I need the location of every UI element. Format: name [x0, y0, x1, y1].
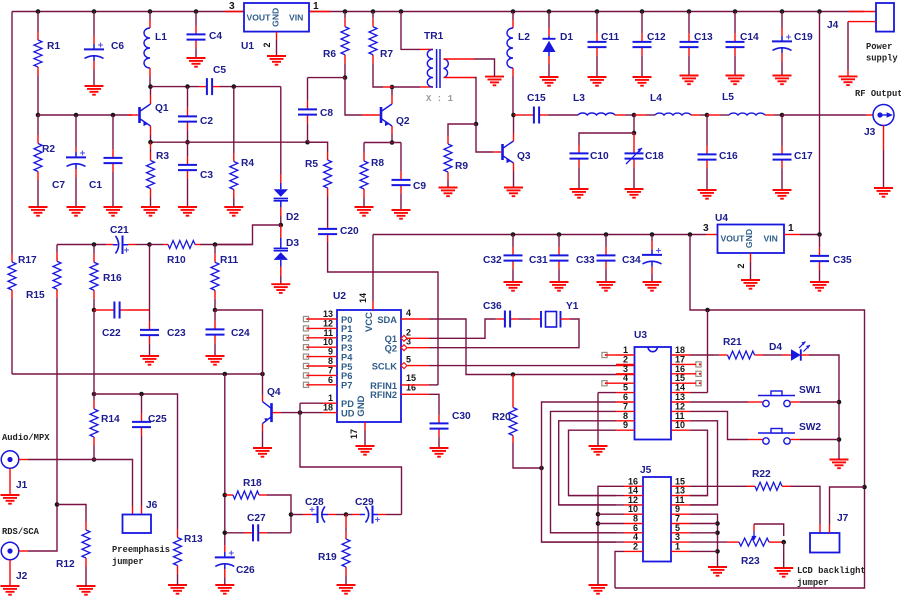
svg-text:3: 3 — [229, 1, 235, 12]
svg-text:C31: C31 — [529, 255, 548, 266]
svg-text:C34: C34 — [622, 255, 641, 266]
svg-text:D4: D4 — [769, 342, 782, 353]
svg-text:supply: supply — [866, 54, 898, 64]
svg-text:RDS/SCA: RDS/SCA — [2, 527, 40, 537]
svg-text:VIN: VIN — [764, 234, 778, 244]
svg-text:C4: C4 — [209, 31, 222, 42]
svg-text:Q1: Q1 — [155, 103, 169, 114]
svg-text:C32: C32 — [483, 255, 502, 266]
svg-text:R19: R19 — [318, 552, 337, 563]
svg-text:D3: D3 — [286, 238, 299, 249]
svg-text:jumper: jumper — [797, 578, 829, 588]
svg-text:1: 1 — [675, 541, 680, 551]
svg-text:C3: C3 — [200, 170, 213, 181]
svg-text:L1: L1 — [155, 32, 167, 43]
svg-text:C27: C27 — [247, 513, 266, 524]
svg-text:R8: R8 — [371, 158, 384, 169]
svg-text:R11: R11 — [220, 255, 238, 266]
svg-text:R3: R3 — [156, 151, 169, 162]
svg-text:Audio/MPX: Audio/MPX — [2, 433, 50, 443]
svg-text:R2: R2 — [42, 144, 55, 155]
svg-text:X : 1: X : 1 — [426, 94, 454, 104]
svg-text:C30: C30 — [452, 411, 471, 422]
svg-text:U1: U1 — [241, 41, 254, 52]
svg-text:C14: C14 — [740, 32, 759, 43]
svg-text:1: 1 — [313, 1, 319, 12]
svg-text:VOUT: VOUT — [247, 13, 272, 23]
svg-text:D2: D2 — [286, 212, 299, 223]
svg-text:R20: R20 — [492, 412, 511, 423]
svg-text:2: 2 — [262, 42, 272, 47]
svg-text:C2: C2 — [200, 116, 213, 127]
svg-text:R14: R14 — [101, 414, 120, 425]
svg-text:C29: C29 — [355, 497, 374, 508]
svg-text:R7: R7 — [380, 49, 393, 60]
svg-text:D1: D1 — [560, 32, 573, 43]
svg-text:2: 2 — [736, 263, 746, 268]
svg-text:R15: R15 — [26, 290, 45, 301]
svg-text:R16: R16 — [103, 273, 122, 284]
svg-text:C5: C5 — [213, 65, 226, 76]
svg-text:C6: C6 — [111, 41, 124, 52]
svg-text:C22: C22 — [102, 328, 121, 339]
svg-text:SDA: SDA — [377, 315, 397, 325]
svg-text:R9: R9 — [455, 161, 468, 172]
svg-text:R13: R13 — [184, 534, 203, 545]
svg-text:L3: L3 — [573, 93, 585, 104]
svg-text:RF Output: RF Output — [855, 89, 901, 99]
svg-text:R12: R12 — [56, 559, 75, 570]
svg-text:Q2: Q2 — [385, 344, 397, 354]
svg-text:SCLK: SCLK — [372, 362, 398, 372]
svg-text:L4: L4 — [650, 93, 662, 104]
svg-text:C11: C11 — [601, 32, 619, 43]
svg-text:C36: C36 — [483, 301, 502, 312]
svg-text:VIN: VIN — [289, 13, 303, 23]
svg-text:3: 3 — [703, 223, 709, 234]
svg-text:Preemphasis: Preemphasis — [112, 545, 170, 555]
svg-text:J7: J7 — [837, 513, 849, 524]
svg-text:2: 2 — [633, 541, 638, 551]
svg-text:RFIN2: RFIN2 — [370, 390, 397, 400]
svg-text:C20: C20 — [340, 226, 359, 237]
svg-text:UD: UD — [341, 408, 355, 418]
svg-text:U4: U4 — [715, 213, 728, 224]
svg-text:GND: GND — [271, 8, 281, 27]
svg-text:Q2: Q2 — [396, 116, 410, 127]
svg-text:GND: GND — [356, 395, 367, 416]
svg-text:14: 14 — [358, 293, 368, 303]
svg-text:Q4: Q4 — [267, 387, 281, 398]
svg-text:TR1: TR1 — [424, 31, 444, 42]
svg-text:J2: J2 — [16, 571, 28, 582]
svg-text:18: 18 — [323, 403, 333, 413]
svg-text:J6: J6 — [146, 500, 158, 511]
svg-text:C12: C12 — [647, 32, 666, 43]
svg-text:J1: J1 — [16, 480, 28, 491]
svg-text:C28: C28 — [305, 497, 324, 508]
svg-text:4: 4 — [406, 308, 411, 318]
svg-text:9: 9 — [623, 420, 628, 430]
svg-text:R5: R5 — [305, 159, 318, 170]
svg-text:VCC: VCC — [364, 312, 375, 332]
svg-text:LCD backlight: LCD backlight — [797, 566, 866, 576]
svg-text:C15: C15 — [527, 93, 546, 104]
svg-text:C13: C13 — [694, 32, 713, 43]
svg-text:16: 16 — [406, 382, 416, 392]
svg-text:SW2: SW2 — [799, 422, 821, 433]
svg-text:J3: J3 — [864, 127, 876, 138]
svg-text:C26: C26 — [236, 565, 255, 576]
svg-text:R21: R21 — [723, 337, 742, 348]
svg-text:C8: C8 — [320, 108, 333, 119]
svg-text:Y1: Y1 — [566, 301, 579, 312]
svg-text:GND: GND — [744, 229, 754, 248]
svg-text:C19: C19 — [794, 32, 813, 43]
svg-text:C33: C33 — [576, 255, 595, 266]
svg-text:C18: C18 — [645, 151, 664, 162]
svg-text:SW1: SW1 — [799, 385, 821, 396]
svg-text:P7: P7 — [341, 381, 352, 391]
svg-text:R17: R17 — [18, 255, 37, 266]
svg-text:C1: C1 — [89, 180, 102, 191]
svg-text:R10: R10 — [167, 255, 186, 266]
svg-text:J5: J5 — [640, 465, 652, 476]
svg-text:L2: L2 — [518, 32, 530, 43]
svg-text:C24: C24 — [231, 328, 250, 339]
svg-text:17: 17 — [349, 429, 359, 439]
svg-text:Power: Power — [866, 42, 892, 52]
svg-text:jumper: jumper — [112, 557, 144, 567]
svg-text:Q1: Q1 — [385, 334, 397, 344]
svg-text:R23: R23 — [741, 556, 760, 567]
svg-text:J4: J4 — [827, 20, 839, 31]
svg-text:R6: R6 — [323, 49, 336, 60]
svg-text:C35: C35 — [833, 255, 852, 266]
svg-text:C25: C25 — [148, 414, 167, 425]
svg-text:R1: R1 — [47, 41, 60, 52]
svg-text:C17: C17 — [794, 151, 813, 162]
svg-text:1: 1 — [788, 223, 794, 234]
svg-text:10: 10 — [675, 420, 685, 430]
svg-text:5: 5 — [406, 355, 411, 365]
svg-text:6: 6 — [328, 375, 333, 385]
svg-text:Q3: Q3 — [517, 151, 531, 162]
svg-text:R22: R22 — [752, 469, 771, 480]
svg-text:U3: U3 — [634, 330, 647, 341]
svg-text:C23: C23 — [167, 328, 186, 339]
svg-text:C9: C9 — [413, 181, 426, 192]
svg-text:C10: C10 — [590, 151, 609, 162]
svg-text:VOUT: VOUT — [721, 234, 746, 244]
svg-text:R4: R4 — [241, 158, 254, 169]
svg-text:C21: C21 — [110, 225, 129, 236]
svg-text:R18: R18 — [243, 478, 262, 489]
svg-text:C16: C16 — [719, 151, 738, 162]
svg-text:C7: C7 — [52, 180, 65, 191]
svg-text:L5: L5 — [722, 92, 734, 103]
svg-text:U2: U2 — [333, 291, 346, 302]
